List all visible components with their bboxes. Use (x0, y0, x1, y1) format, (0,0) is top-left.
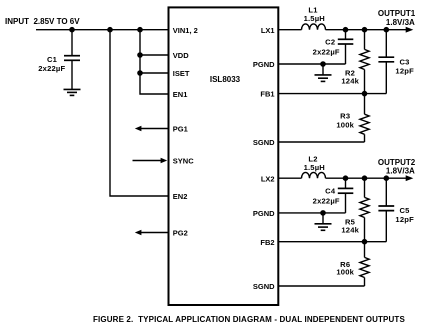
capacitor C2 value label (313, 38, 340, 57)
node input junction VDD branch (138, 28, 142, 32)
pin PG1 (173, 125, 188, 134)
svg-text:2x22µF: 2x22µF (313, 197, 340, 206)
svg-text:C5: C5 (399, 206, 410, 215)
svg-text:SGND: SGND (253, 138, 275, 147)
capacitor C1 (64, 30, 80, 90)
svg-text:SGND: SGND (253, 282, 275, 291)
svg-text:12pF: 12pF (395, 66, 414, 75)
node OUTPUT1 net label (378, 9, 416, 27)
svg-text:C3: C3 (399, 57, 409, 66)
node input junction EN2 branch (108, 28, 112, 32)
wire SYNC arrow (133, 158, 168, 163)
capacitor C4 (338, 178, 354, 213)
resistor R2 value label (341, 68, 359, 85)
svg-text:1.8V/3A: 1.8V/3A (386, 166, 415, 175)
pin VIN1,2 (173, 26, 198, 35)
svg-text:100k: 100k (336, 120, 354, 129)
node LX2/R5 junction (362, 176, 366, 180)
wire PG1 arrow (135, 126, 169, 131)
pin PG2 (173, 229, 188, 238)
svg-text:VDD: VDD (173, 51, 189, 60)
node LX1/R2 junction (362, 28, 366, 32)
wire EN2 branch (110, 30, 169, 196)
capacitor C5 value label (395, 206, 414, 224)
svg-text:C2: C2 (325, 38, 335, 47)
wire FB2 (278, 241, 386, 243)
svg-text:1.8V/3A: 1.8V/3A (386, 18, 415, 27)
pin SYNC (173, 157, 194, 166)
pin PGND (1) (253, 60, 275, 69)
node LX1/C3 junction (384, 28, 388, 32)
pin FB1 (260, 90, 274, 99)
node ISET junction (138, 71, 142, 75)
node PGND1 ground junction (321, 62, 325, 66)
svg-text:SYNC: SYNC (173, 157, 194, 166)
wire OUTPUT2 arrow (406, 175, 414, 181)
capacitor C3 (378, 30, 394, 94)
inductor L2 value label (304, 154, 325, 172)
resistor R6 value label (336, 260, 354, 277)
pin SGND (2) (253, 282, 275, 291)
svg-text:C4: C4 (325, 187, 336, 196)
pin LX2 (261, 174, 275, 183)
op-amp U1 name label ISL8033 (210, 75, 241, 84)
wire VDD (140, 54, 169, 56)
wire PGND2 (278, 212, 345, 214)
svg-text:LX1: LX1 (261, 26, 275, 35)
inductor L1 value label (304, 5, 325, 23)
capacitor C2 (338, 30, 354, 64)
svg-text:L1: L1 (308, 5, 318, 14)
svg-text:100k: 100k (336, 268, 354, 277)
wire OUTPUT1 arrow (406, 27, 414, 33)
node LX2/C5 junction (384, 176, 388, 180)
pin FB2 (260, 238, 274, 247)
node LX2/C4 junction (343, 176, 347, 180)
capacitor C4 value label (313, 187, 340, 206)
svg-text:2x22µF: 2x22µF (38, 64, 65, 73)
wire PG2 arrow (135, 230, 169, 235)
wire PGND1 (278, 63, 345, 65)
pin VDD (173, 51, 189, 60)
pin ISET (173, 69, 190, 78)
resistor R3 value label (336, 112, 354, 130)
svg-text:1.5µH: 1.5µH (304, 163, 325, 172)
capacitor C3 value label (395, 57, 414, 75)
node FB2/R5 junction (362, 240, 366, 244)
op-amp U1 IC ISL8033 body (169, 7, 279, 305)
ground under PGND2 (315, 213, 332, 230)
svg-text:EN2: EN2 (173, 192, 188, 201)
svg-text:ISL8033: ISL8033 (210, 75, 241, 84)
ground under C1 (64, 89, 81, 95)
svg-text:FB2: FB2 (260, 238, 274, 247)
inductor L2 (302, 172, 326, 178)
node FB1/R2 junction (362, 92, 366, 96)
wire FB1 (278, 93, 386, 95)
svg-text:C1: C1 (47, 55, 58, 64)
svg-text:R3: R3 (340, 112, 350, 121)
resistor R6 (360, 242, 369, 286)
resistor R5 (360, 178, 369, 242)
svg-text:L2: L2 (308, 154, 317, 163)
wire OUTPUT1 rail (326, 29, 407, 31)
svg-text:VIN1, 2: VIN1, 2 (173, 26, 198, 35)
svg-text:PGND: PGND (253, 60, 275, 69)
node LX1/C2 junction (343, 28, 347, 32)
wire SGND1 (278, 141, 364, 143)
resistor R2 (360, 30, 369, 94)
svg-text:INPUT 2.85V TO 6V: INPUT 2.85V TO 6V (5, 17, 80, 26)
svg-text:PG2: PG2 (173, 229, 188, 238)
node PGND2 ground junction (321, 211, 325, 215)
wire LX2 to inductor (278, 177, 301, 179)
pin LX1 (261, 26, 275, 35)
pin EN1 (173, 90, 188, 99)
svg-text:12pF: 12pF (395, 215, 414, 224)
resistor R5 value label (341, 217, 359, 234)
resistor R3 (360, 94, 369, 142)
node VDD junction (138, 53, 142, 57)
node OUTPUT2 net label (378, 158, 416, 175)
wire SGND2 (278, 285, 364, 287)
svg-text:PGND: PGND (253, 209, 275, 218)
capacitor C1 value label (38, 55, 65, 73)
wire input rail (36, 29, 169, 31)
svg-text:EN1: EN1 (173, 90, 188, 99)
node input junction C1 (70, 28, 74, 32)
pin EN2 (173, 192, 188, 201)
pin SGND (1) (253, 138, 275, 147)
svg-text:ISET: ISET (173, 69, 190, 78)
ground under PGND1 (315, 64, 332, 81)
wire VDD/ISET/EN1 branch (140, 30, 169, 94)
wire ISET (140, 72, 169, 74)
wire LX1 to inductor (278, 29, 301, 31)
svg-text:124k: 124k (341, 225, 359, 234)
svg-text:OUTPUT1: OUTPUT1 (378, 9, 416, 18)
figure caption (93, 315, 405, 324)
capacitor C5 (378, 178, 394, 242)
svg-text:1.5µH: 1.5µH (304, 14, 325, 23)
svg-text:FB1: FB1 (260, 90, 274, 99)
svg-text:124k: 124k (341, 76, 359, 85)
inductor L1 (302, 24, 326, 30)
svg-text:FIGURE 2. TYPICAL APPLICATION: FIGURE 2. TYPICAL APPLICATION DIAGRAM - … (93, 315, 405, 324)
node INPUT net label (5, 17, 80, 26)
pin PGND (2) (253, 209, 275, 218)
svg-text:PG1: PG1 (173, 125, 188, 134)
wire OUTPUT2 rail (326, 177, 407, 179)
svg-text:2x22µF: 2x22µF (313, 47, 340, 56)
svg-text:LX2: LX2 (261, 174, 275, 183)
